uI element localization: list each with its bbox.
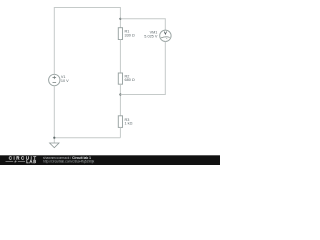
svg-text:1 kΩ: 1 kΩ	[125, 122, 133, 126]
footer text line1	[43, 156, 91, 160]
wire R2-R3	[119, 84, 121, 116]
resistor R2	[118, 73, 122, 84]
voltage source V1	[49, 74, 60, 85]
wire branch to voltmeter	[120, 19, 165, 30]
voltmeter VM1	[160, 30, 171, 41]
svg-text:LAB: LAB	[26, 159, 37, 164]
wire R3 bottom	[119, 127, 121, 137]
wire top	[54, 7, 120, 9]
svg-text:10 V: 10 V	[61, 79, 69, 83]
node junction bottom-left	[53, 137, 55, 139]
wire middle top	[119, 7, 121, 28]
resistor R1	[118, 28, 122, 40]
label VM1 5.025 V	[144, 31, 158, 39]
footer text line2	[43, 159, 95, 163]
svg-text:http://circuitlab.com/c/8ux4fq: http://circuitlab.com/c/8ux4fq6z96jk	[43, 159, 95, 163]
label R2 680	[125, 74, 135, 82]
label R3 1k	[125, 118, 133, 126]
svg-text:680 Ω: 680 Ω	[125, 78, 135, 82]
wire left upper	[53, 7, 55, 74]
wire R1-R2	[119, 40, 121, 74]
svg-text:330 Ω: 330 Ω	[125, 34, 135, 38]
node junction B	[119, 93, 121, 95]
ground	[50, 143, 59, 148]
footer bar	[0, 155, 220, 165]
label V1 10 V	[61, 75, 69, 83]
wire voltmeter down	[120, 42, 165, 95]
footer logo CIRCUIT LAB	[6, 156, 38, 165]
svg-text:5.025 V: 5.025 V	[144, 34, 158, 38]
resistor R3	[118, 116, 122, 128]
wire left lower	[53, 86, 55, 143]
label R1 330	[125, 30, 135, 38]
node junction A	[119, 18, 121, 20]
wire bottom	[54, 137, 120, 139]
